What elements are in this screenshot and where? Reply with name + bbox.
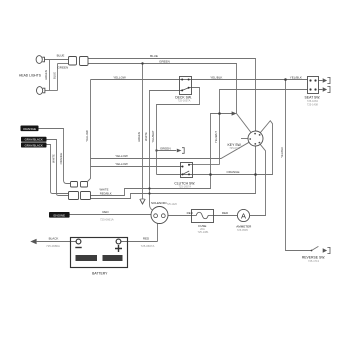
svg-text:BLUE: BLUE (57, 53, 65, 57)
svg-text:GREEN: GREEN (160, 146, 171, 150)
svg-text:A: A (241, 211, 246, 220)
svg-text:725-1381: 725-1381 (198, 230, 210, 234)
svg-text:725-0986A: 725-0986A (46, 244, 60, 248)
svg-text:725-1408: 725-1408 (307, 103, 319, 107)
svg-text:WHITE: WHITE (51, 154, 55, 163)
svg-text:WHITE: WHITE (144, 132, 148, 141)
svg-text:GREEN: GREEN (159, 59, 170, 63)
svg-text:YELLOW: YELLOW (85, 130, 89, 142)
svg-text:725-0717: 725-0717 (229, 146, 241, 150)
svg-text:725-1713: 725-1713 (308, 259, 320, 263)
svg-text:ORANGE: ORANGE (23, 127, 36, 131)
svg-text:725-1426: 725-1426 (167, 203, 178, 206)
svg-text:YELLOW: YELLOW (115, 162, 128, 166)
svg-text:YEL/BLK: YEL/BLK (210, 75, 222, 79)
svg-text:YEL/BLK: YEL/BLK (290, 76, 302, 80)
svg-text:RED/BLK: RED/BLK (100, 192, 112, 196)
svg-text:GREEN: GREEN (44, 70, 48, 80)
svg-text:725-0667A: 725-0667A (141, 244, 155, 248)
svg-text:YEL/WHT: YEL/WHT (214, 131, 218, 143)
svg-text:BLUE: BLUE (150, 54, 158, 58)
svg-text:725-1063: 725-1063 (307, 99, 319, 103)
svg-text:ORANGE: ORANGE (226, 170, 239, 174)
svg-text:GRAY/BLACK: GRAY/BLACK (25, 143, 43, 147)
svg-text:725-0505: 725-0505 (237, 228, 249, 232)
svg-text:ENGINE: ENGINE (54, 213, 66, 217)
svg-text:BATTERY: BATTERY (92, 271, 108, 275)
svg-text:YELLOW: YELLOW (113, 75, 126, 79)
svg-text:725-1657A: 725-1657A (178, 185, 191, 189)
svg-text:SOLENOID: SOLENOID (151, 201, 167, 205)
svg-text:RED: RED (222, 211, 229, 215)
svg-text:RED: RED (102, 210, 109, 214)
svg-text:GRAY/BLACK: GRAY/BLACK (25, 138, 43, 142)
svg-text:BLUE: BLUE (52, 72, 56, 79)
svg-text:GREEN: GREEN (137, 132, 141, 142)
svg-text:AMMETER: AMMETER (236, 224, 252, 228)
svg-text:BLACK: BLACK (49, 236, 59, 240)
svg-text:YEL/WHT: YEL/WHT (151, 130, 155, 142)
svg-text:RED: RED (187, 211, 194, 215)
svg-text:ORANGE: ORANGE (59, 152, 63, 164)
svg-text:HEAD LIGHTS: HEAD LIGHTS (19, 73, 42, 77)
svg-text:725-1657A: 725-1657A (178, 99, 191, 103)
svg-text:RED: RED (143, 236, 150, 240)
svg-text:725-0661A: 725-0661A (100, 218, 114, 222)
svg-text:YEL/BLK: YEL/BLK (280, 147, 284, 158)
svg-text:REVERSE SW.: REVERSE SW. (302, 255, 325, 259)
svg-text:YELLOW: YELLOW (115, 154, 128, 158)
svg-text:GREEN: GREEN (57, 66, 68, 70)
